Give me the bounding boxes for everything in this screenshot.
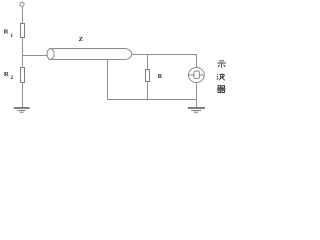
svg-text:2: 2 [10,75,13,81]
glyph 器 [217,86,226,93]
delay line U1 (coaxial cylinder) [47,48,132,59]
oscilloscope P1 [189,68,205,83]
resistor R1 [21,24,25,38]
label R [158,73,163,80]
resistor R [146,70,150,82]
wire [22,7,24,24]
resistor R2 [21,68,25,83]
glyph 波 [217,74,225,81]
svg-text:Z: Z [79,36,84,43]
wire [107,60,109,100]
label Z [79,36,84,43]
wire [22,38,24,68]
wire [22,55,47,57]
terminal J1 [20,2,24,6]
ground [14,108,30,112]
wire [132,54,197,56]
svg-text:1: 1 [10,33,13,39]
wire [196,54,198,68]
label R2 [4,71,14,81]
wire [196,82,198,107]
wire [107,99,197,101]
glyph 示 [217,61,225,68]
label R1 [4,29,14,39]
svg-text:R: R [158,73,163,80]
svg-text:R: R [4,29,9,36]
label 示波器 (oscilloscope) hand-drawn glyphs [217,61,226,93]
wire [147,55,149,70]
ground [188,108,205,112]
wire [22,83,24,108]
wire [147,82,149,100]
svg-text:R: R [4,71,9,78]
